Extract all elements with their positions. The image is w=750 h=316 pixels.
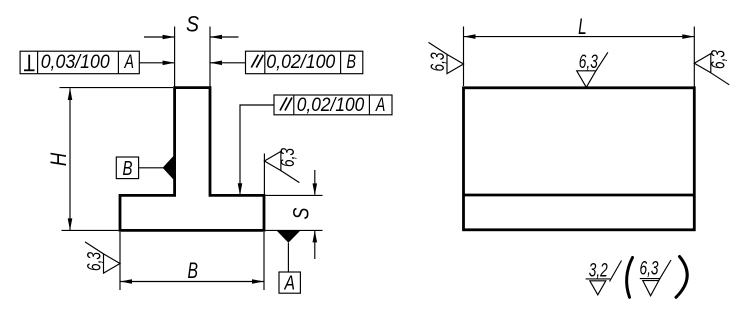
svg-text:B: B xyxy=(347,52,357,73)
svg-text:0,02/100: 0,02/100 xyxy=(297,95,365,116)
svg-text:6,3: 6,3 xyxy=(278,148,299,167)
dimension S (right) upper arrow xyxy=(314,170,316,195)
wire L left extension up xyxy=(463,27,465,87)
wire bottom-left extension xyxy=(62,229,119,231)
dimension L line xyxy=(464,36,695,38)
dimension S (top) right segment xyxy=(210,36,239,38)
roughness 6,3 right edge (tip left) xyxy=(694,50,729,85)
wire S-right top extension xyxy=(265,194,322,196)
dimension B line xyxy=(120,281,264,283)
inner step line xyxy=(464,194,695,197)
svg-text:L: L xyxy=(578,14,587,39)
leader from FCF1 to stem left edge xyxy=(139,62,174,64)
roughness 6,3 left edge (tip right) xyxy=(428,42,463,73)
wire B-dim left extension down xyxy=(119,232,121,290)
leader from FCF2 to stem right edge xyxy=(210,62,246,64)
svg-text:6,3: 6,3 xyxy=(708,50,729,69)
wire stem-right extension up xyxy=(209,27,211,88)
general roughness note 3,2 xyxy=(586,261,622,295)
svg-text:6,3: 6,3 xyxy=(428,52,449,71)
roughness 6,3 on B extension (tip right) xyxy=(85,242,120,273)
roughness 6,3 top edge (upright) xyxy=(577,52,608,87)
wire H top extension xyxy=(60,87,174,89)
svg-text:6,3: 6,3 xyxy=(640,259,659,280)
datum B symbol xyxy=(116,155,174,181)
svg-text:3,2: 3,2 xyxy=(589,261,608,282)
dimension S (right) lower arrow xyxy=(314,231,316,259)
svg-text:B: B xyxy=(188,258,199,283)
svg-text:A: A xyxy=(375,95,385,116)
svg-text:B: B xyxy=(123,157,133,180)
closing parenthesis xyxy=(676,257,687,298)
svg-text:A: A xyxy=(283,271,295,294)
general roughness note 6,3 in parentheses xyxy=(640,259,672,296)
svg-text:S: S xyxy=(289,207,314,219)
feature control frame FCF1 perpendicularity 0,03/100 A xyxy=(20,51,139,73)
leader from FCF3 down to base top surface xyxy=(240,105,274,194)
svg-text:A: A xyxy=(124,52,134,73)
svg-text:6,3: 6,3 xyxy=(85,252,106,271)
svg-text:S: S xyxy=(186,12,199,37)
datum A symbol xyxy=(276,230,300,294)
dimension H line xyxy=(69,88,71,230)
wire L right extension up xyxy=(693,27,695,87)
wire base-right corner extension up xyxy=(263,154,265,195)
svg-text:0,02/100: 0,02/100 xyxy=(266,52,335,73)
opening parenthesis xyxy=(627,258,633,298)
svg-text:0,03/100: 0,03/100 xyxy=(41,52,110,73)
wire S-right bottom extension xyxy=(265,229,322,231)
feature control frame FCF3 parallelism 0,02/100 A xyxy=(274,95,392,116)
roughness 6,3 on base-right edge (tip left) xyxy=(264,148,299,183)
feature control frame FCF2 parallelism 0,02/100 B xyxy=(246,51,363,73)
wire B-dim right extension down xyxy=(263,232,265,290)
dimension S (top) left segment xyxy=(144,36,175,38)
svg-text:6,3: 6,3 xyxy=(579,52,598,73)
part outline (T-profile) xyxy=(120,88,264,231)
wire stem-left extension up xyxy=(174,27,176,88)
rectangle outline xyxy=(464,88,695,230)
svg-text:H: H xyxy=(46,153,71,167)
